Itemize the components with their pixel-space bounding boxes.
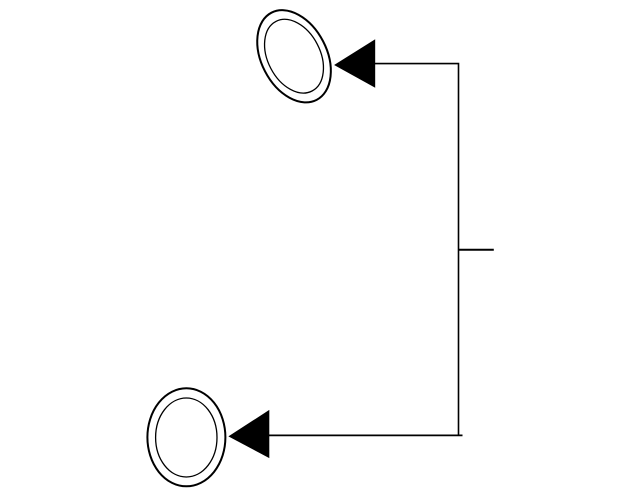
arrowhead bottom — [228, 410, 269, 458]
grommet ring bottom (part callout) — [147, 388, 225, 486]
grommet ring top (part callout) — [242, 0, 345, 115]
wire: top leader line and vertical run — [375, 64, 459, 436]
tick: mid branch stub — [459, 249, 494, 251]
arrowhead top — [334, 39, 375, 88]
wire: bottom leader line — [269, 434, 463, 436]
